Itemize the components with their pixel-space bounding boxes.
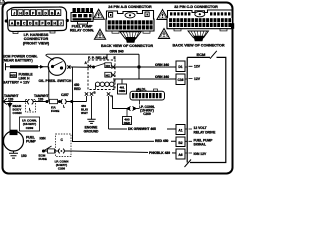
svg-text:ORN 340: ORN 340 <box>155 63 169 67</box>
svg-text:RELAY DRIVE: RELAY DRIVE <box>194 130 217 134</box>
svg-text:B: B <box>94 91 97 95</box>
svg-text:ORN 340: ORN 340 <box>155 75 169 79</box>
svg-text:BACK VIEW OF CONNECTOR: BACK VIEW OF CONNECTOR <box>173 44 225 48</box>
svg-text:L: L <box>29 108 31 112</box>
svg-text:C: C <box>111 94 114 98</box>
svg-text:150: 150 <box>21 154 27 158</box>
svg-text:C: C <box>23 22 26 26</box>
svg-text:24 PIN A-B CONNECTOR: 24 PIN A-B CONNECTOR <box>108 5 152 9</box>
svg-text:C209: C209 <box>26 126 34 130</box>
svg-text:FUSE: FUSE <box>39 157 47 161</box>
svg-text:C209: C209 <box>143 112 151 116</box>
svg-text:H: H <box>19 11 22 15</box>
svg-text:D1: D1 <box>178 65 182 69</box>
svg-text:IGN: IGN <box>40 137 47 141</box>
svg-text:(NEAR BATTERY): (NEAR BATTERY) <box>3 59 34 63</box>
svg-text:BATTERY + 12V: BATTERY + 12V <box>3 81 31 85</box>
svg-text:RED: RED <box>124 121 131 125</box>
svg-text:B2: B2 <box>178 141 182 145</box>
svg-text:RED: RED <box>74 87 81 91</box>
svg-text:G: G <box>47 22 50 26</box>
svg-text:DK GRN/WHT 465: DK GRN/WHT 465 <box>128 127 156 131</box>
svg-text:E: E <box>114 56 116 60</box>
svg-text:PNK/BLK 439: PNK/BLK 439 <box>149 151 170 155</box>
svg-text:F. P. RELAY: F. P. RELAY <box>88 56 108 60</box>
svg-text:A: A <box>11 22 14 26</box>
svg-text:RED 450: RED 450 <box>155 139 169 143</box>
svg-text:RELAY CONN.: RELAY CONN. <box>70 29 94 33</box>
svg-text:PUMP: PUMP <box>26 140 37 144</box>
svg-text:ECM: ECM <box>197 52 207 57</box>
svg-text:120: 120 <box>8 97 14 101</box>
svg-text:L: L <box>63 104 65 108</box>
svg-text:H: H <box>53 22 56 26</box>
svg-text:WHT: WHT <box>81 111 88 115</box>
svg-text:F: F <box>114 80 116 84</box>
svg-text:GROUND: GROUND <box>84 130 99 134</box>
svg-text:A: A <box>85 61 88 65</box>
svg-text:B: B <box>17 22 20 26</box>
svg-text:D: D <box>44 11 47 15</box>
svg-text:C257: C257 <box>61 93 69 97</box>
svg-text:G: G <box>25 11 28 15</box>
svg-text:A6: A6 <box>178 153 182 157</box>
svg-text:ORN 340: ORN 340 <box>110 50 124 54</box>
svg-text:J: J <box>13 11 15 15</box>
svg-text:D: D <box>29 22 32 26</box>
svg-text:C206: C206 <box>58 167 66 171</box>
svg-text:J: J <box>60 22 62 26</box>
svg-text:SIGNAL: SIGNAL <box>194 143 206 147</box>
svg-text:CONN: CONN <box>13 111 23 115</box>
svg-text:12V: 12V <box>194 77 201 81</box>
svg-text:32 PIN C-D CONNECTOR: 32 PIN C-D CONNECTOR <box>174 5 218 9</box>
svg-text:BACK VIEW OF CONNECTOR: BACK VIEW OF CONNECTOR <box>101 44 153 48</box>
svg-text:RED: RED <box>10 74 16 78</box>
svg-text:OIL PRES. SWITCH: OIL PRES. SWITCH <box>39 79 72 83</box>
svg-text:C: C <box>61 138 64 142</box>
svg-text:FUSE: FUSE <box>51 109 59 113</box>
svg-text:A1: A1 <box>178 129 182 133</box>
svg-text:(FRONT VIEW): (FRONT VIEW) <box>23 41 50 45</box>
svg-text:C16: C16 <box>177 78 183 82</box>
svg-text:ORN: ORN <box>119 89 125 93</box>
svg-text:A: A <box>57 11 60 15</box>
svg-text:B: B <box>51 11 54 15</box>
svg-text:12V: 12V <box>194 65 201 69</box>
svg-text:120: 120 <box>38 97 44 101</box>
svg-text:IGN 12V: IGN 12V <box>194 152 207 156</box>
svg-text:NO: NO <box>106 64 111 68</box>
